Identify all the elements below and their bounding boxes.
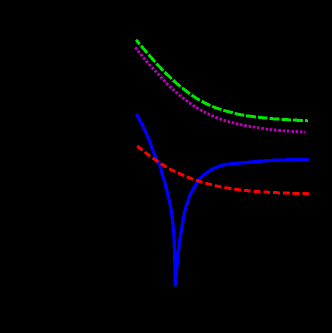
curve red dashed (lower) [136, 145, 310, 194]
curve green dashed (upper) [136, 40, 308, 121]
curve purple dotted [135, 47, 305, 132]
curve blue solid with resonance dip [136, 114, 309, 285]
